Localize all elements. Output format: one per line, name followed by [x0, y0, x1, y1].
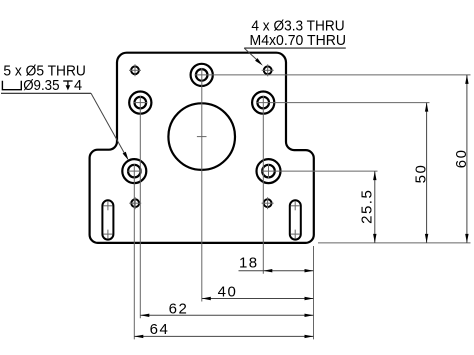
dimension 64 arrows — [134, 335, 143, 338]
crosshair bottom-right cbore vertical — [268, 164, 270, 178]
crosshair M4 bottom-right — [262, 197, 274, 209]
extension line horizontal from top-right cbore (dim 50) — [256, 102, 429, 104]
centerline vertical top-right cbore (ext for dim 18) — [262, 96, 264, 274]
dimension 60 line (vertical) — [466, 75, 468, 243]
slot left arc-center marks — [103, 201, 112, 238]
tapped hole M4 bottom-left — [131, 199, 139, 207]
dimension 50 line (vertical) — [426, 103, 428, 243]
counterbored hole top-left outer — [129, 92, 151, 114]
crosshair bottom-left cbore — [127, 170, 141, 172]
dimension 64 line — [134, 335, 313, 337]
svg-text:M4x0.70 THRU: M4x0.70 THRU — [250, 33, 347, 49]
crosshair M4 bottom-left — [129, 197, 141, 209]
svg-text:Ø9.35: Ø9.35 — [23, 78, 59, 94]
tapped hole M4 bottom-right — [264, 199, 272, 207]
slot left — [102, 200, 113, 239]
counterbored hole top-left inner — [135, 97, 147, 109]
dimension 40 arrows — [202, 297, 211, 300]
centerline vertical top-left cbore (ext for dim 62) — [139, 96, 141, 319]
counterbored hole top-center outer — [191, 64, 213, 86]
leader M4 arrowhead — [255, 58, 263, 66]
dimension 25.5 arrows — [373, 171, 376, 180]
counterbored hole bottom-left outer — [122, 159, 146, 183]
dimension 25.5 line (vertical) — [374, 171, 376, 243]
leader cbore — [91, 93, 125, 154]
crosshair M4 top-left — [129, 64, 141, 76]
centerline vertical bottom-left cbore (ext for dim 64) — [133, 164, 135, 339]
dimension 62 arrows — [140, 314, 149, 317]
counterbored hole bottom-right inner — [262, 165, 275, 178]
extension line horizontal from top-center hole (dim 60) — [195, 74, 471, 76]
svg-text:60: 60 — [453, 149, 470, 169]
leader M4 — [244, 48, 257, 60]
depth symbol — [63, 81, 72, 90]
crosshair top-left cbore — [133, 102, 147, 104]
dimension 40 line — [202, 298, 314, 300]
dimension 50 arrows — [425, 103, 428, 112]
svg-text:50: 50 — [412, 164, 429, 184]
svg-text:18: 18 — [239, 254, 259, 271]
callout underline M4 — [244, 47, 346, 49]
counterbored hole top-center inner — [196, 69, 208, 81]
slot right — [290, 200, 301, 239]
svg-text:5 x Ø5 THRU: 5 x Ø5 THRU — [3, 63, 86, 79]
counterbored hole top-right inner — [257, 97, 269, 109]
svg-text:64: 64 — [150, 321, 170, 338]
crosshair M4 top-right — [262, 64, 274, 76]
tapped hole M4 top-left — [131, 66, 139, 74]
center pilot bore (large circle) — [168, 103, 235, 170]
counterbore symbol — [2, 81, 21, 90]
extension line horizontal from bottom-right cbore (dim 25.5) — [262, 170, 378, 172]
counterbored hole top-right outer — [252, 92, 274, 114]
dimension 62 line — [140, 314, 313, 316]
dimension 18 line — [239, 270, 314, 272]
extension line horizontal bottom edge (right dims) — [318, 242, 471, 244]
tapped hole M4 top-right — [264, 66, 272, 74]
centerline vertical through top-center hole and pilot bore (ext for dim 40) — [201, 68, 203, 302]
plate outline — [90, 53, 314, 243]
dimension 60 arrows — [465, 75, 468, 84]
extension line plate right edge (common for bottom dims) — [313, 246, 315, 339]
svg-text:62: 62 — [169, 300, 189, 317]
counterbored hole bottom-left inner — [128, 165, 141, 178]
counterbored hole bottom-right outer — [257, 159, 281, 183]
leader cbore arrowhead — [123, 152, 129, 161]
slot right arc-center marks — [291, 201, 300, 238]
dimension 18 arrows — [263, 269, 272, 272]
callout underline cbore — [1, 92, 91, 94]
svg-text:4: 4 — [74, 78, 82, 94]
center mark of pilot bore — [197, 136, 207, 138]
svg-text:25.5: 25.5 — [359, 189, 376, 224]
svg-text:40: 40 — [218, 283, 238, 300]
